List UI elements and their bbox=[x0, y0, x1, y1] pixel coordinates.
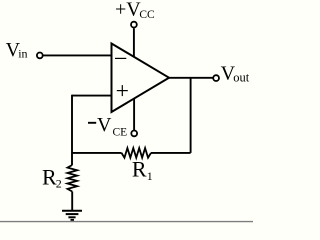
node Vin label bbox=[6, 39, 28, 61]
terminal Vout bbox=[213, 75, 219, 81]
node Vout label bbox=[221, 62, 250, 84]
op-amp U1 bbox=[112, 44, 170, 113]
resistor R1 bbox=[122, 148, 152, 158]
label R2 bbox=[42, 164, 62, 190]
svg-text:CC: CC bbox=[139, 9, 155, 21]
svg-text:1: 1 bbox=[147, 169, 153, 183]
label R1 bbox=[132, 157, 153, 184]
svg-text:R: R bbox=[132, 157, 147, 182]
ground bbox=[62, 211, 82, 220]
svg-text:V: V bbox=[97, 114, 112, 136]
terminal Vin bbox=[37, 53, 43, 59]
svg-text:+V: +V bbox=[115, 0, 141, 20]
wire R1 to left junction bbox=[72, 152, 122, 154]
wire Vin to inverting input bbox=[43, 54, 111, 56]
border line bottom bbox=[0, 221, 253, 223]
terminal -VCE bbox=[131, 131, 137, 137]
wire non-inverting input horizontal bbox=[72, 95, 112, 97]
node +VCC label bbox=[115, 0, 155, 21]
node -VCE label bbox=[88, 114, 127, 139]
svg-text:R: R bbox=[42, 164, 57, 189]
resistor R2 bbox=[68, 165, 78, 192]
wire left vertical bbox=[71, 95, 73, 165]
wire op-amp bottom to -VCE terminal bbox=[133, 98, 135, 130]
svg-text:out: out bbox=[233, 70, 250, 84]
wire +VCC to op-amp top bbox=[133, 28, 135, 57]
svg-text:2: 2 bbox=[56, 176, 62, 190]
svg-text:in: in bbox=[18, 47, 27, 61]
op-amp non-inverting input plus sign bbox=[117, 85, 128, 96]
wire feedback horizontal to R1 bbox=[151, 152, 191, 154]
wire R2 to ground bbox=[71, 192, 73, 211]
wire feedback vertical from output bbox=[190, 78, 192, 153]
wire output bbox=[169, 77, 213, 79]
svg-text:CE: CE bbox=[113, 127, 128, 139]
terminal +VCC bbox=[131, 22, 137, 28]
op-amp inverting input minus sign bbox=[115, 57, 126, 59]
